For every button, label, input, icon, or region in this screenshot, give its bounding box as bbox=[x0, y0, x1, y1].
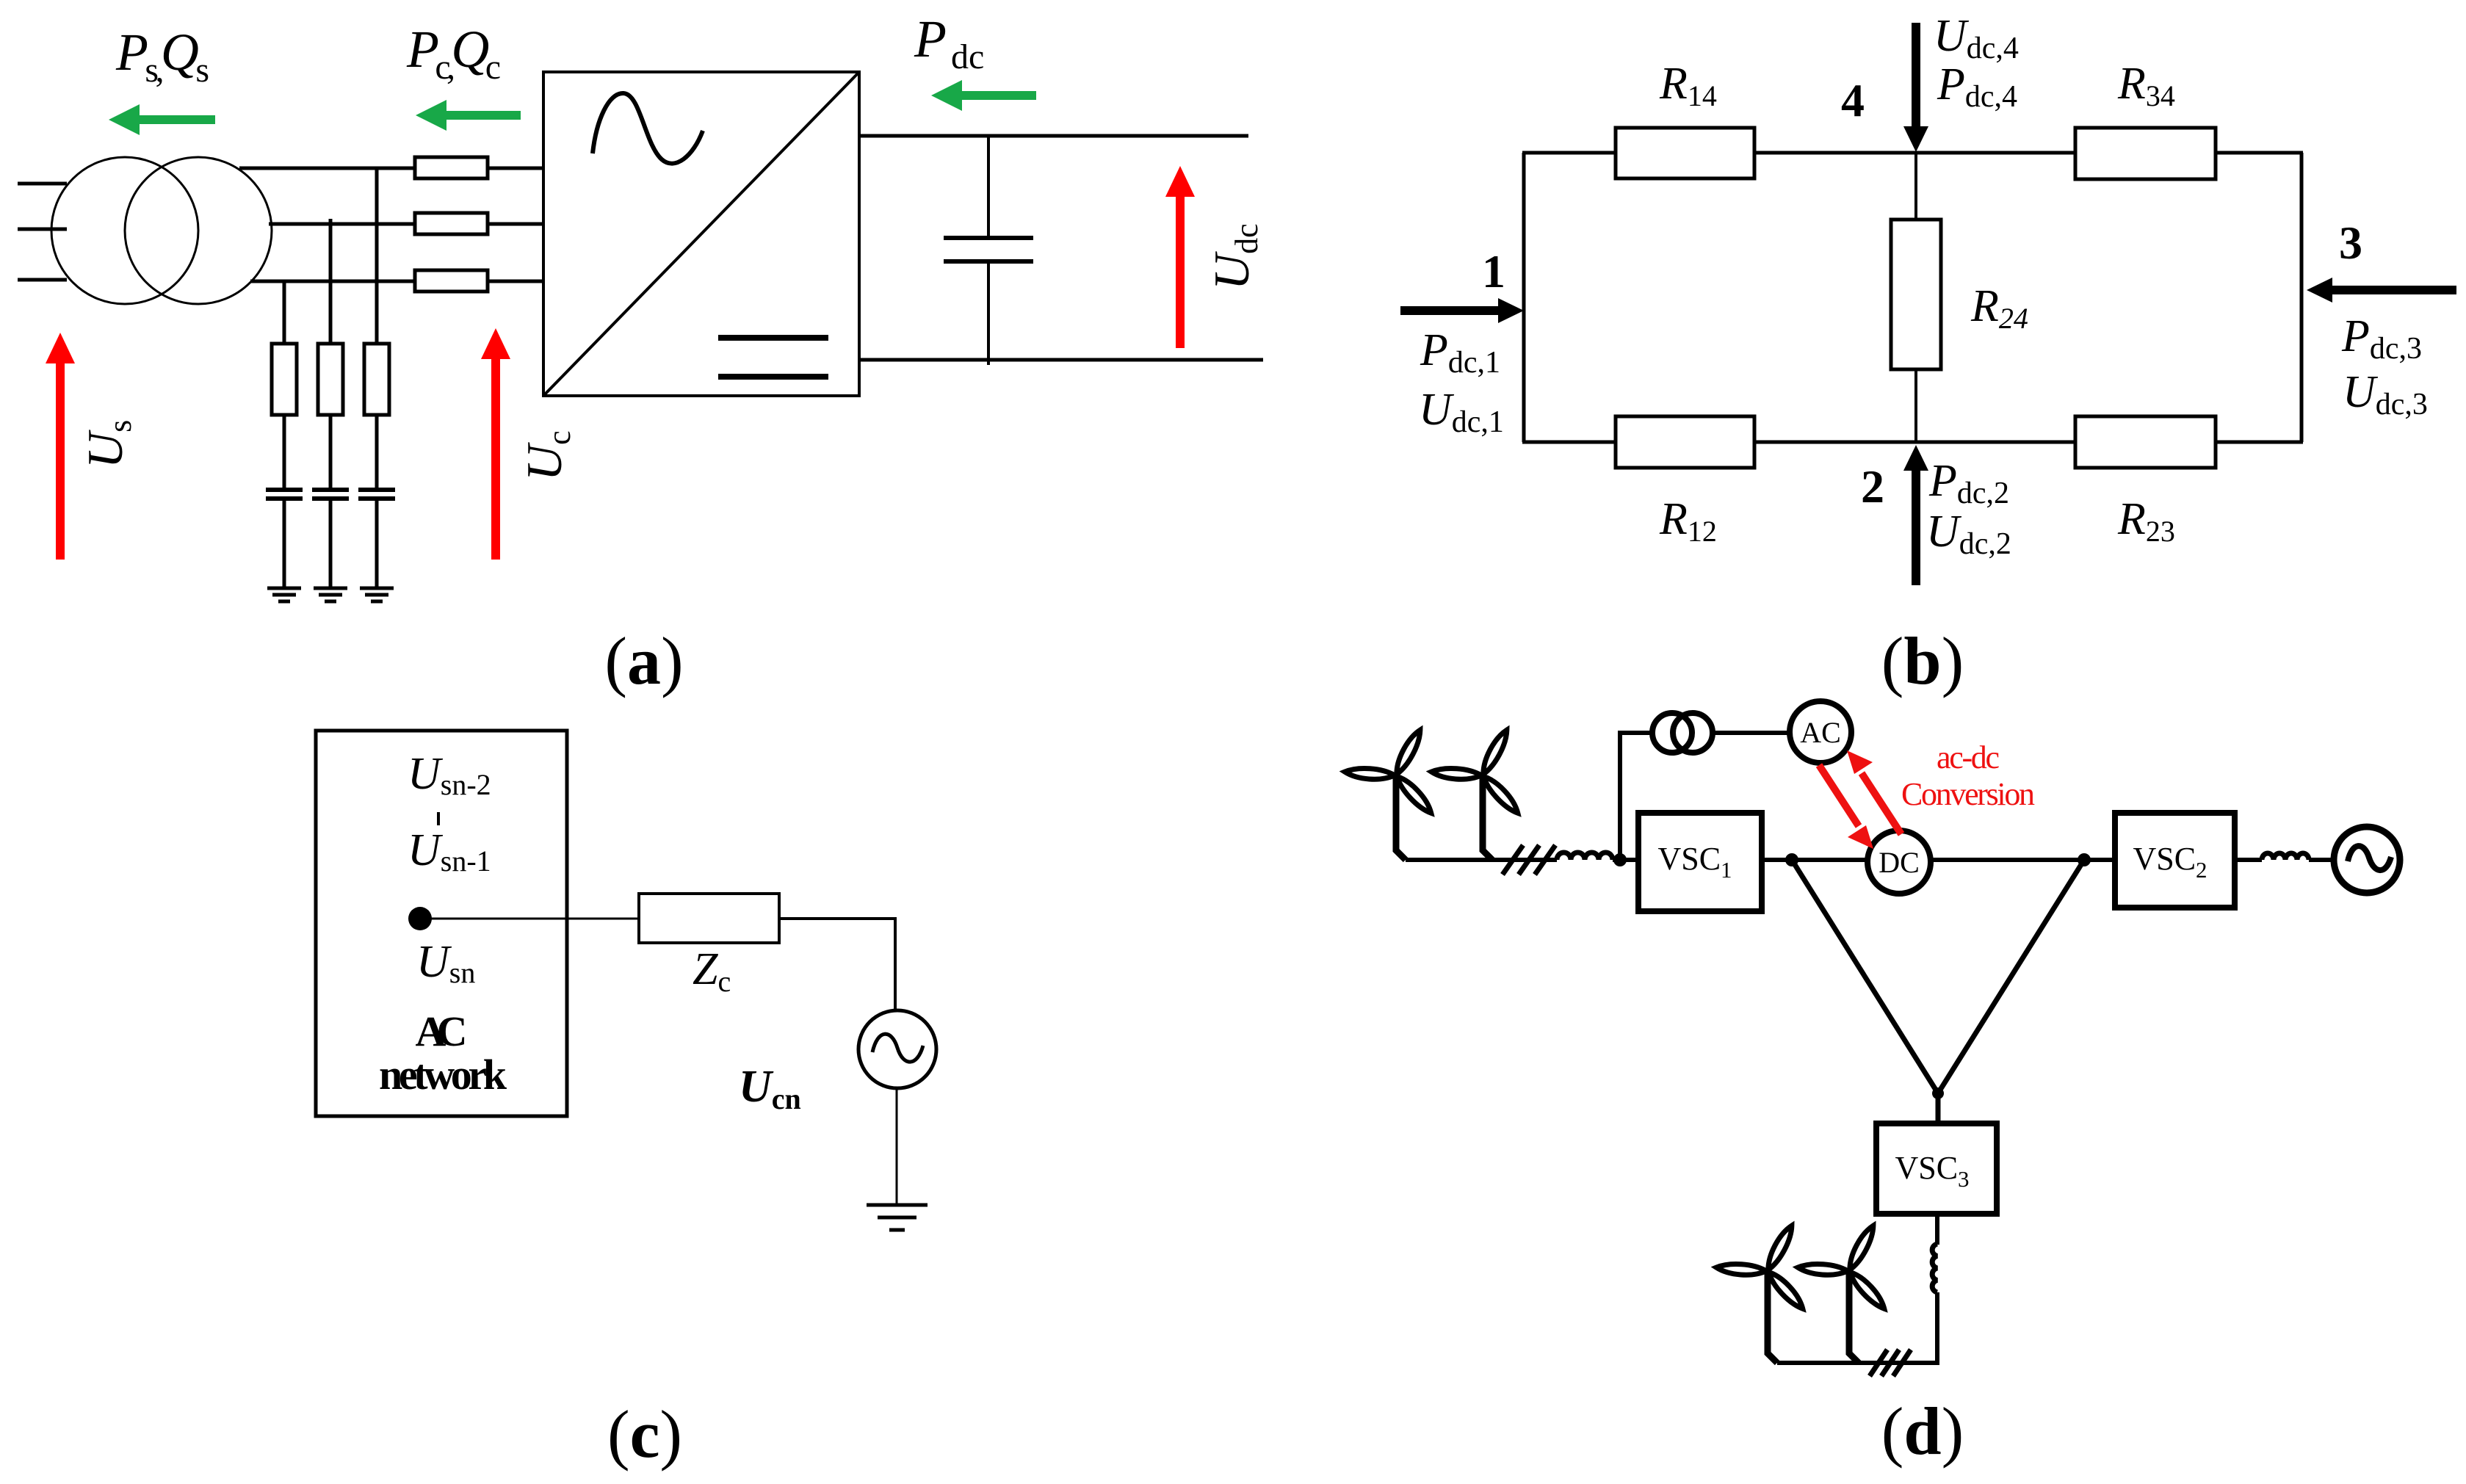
wire dot to VSC2 bbox=[2084, 858, 2115, 862]
ground symbol bbox=[867, 1205, 928, 1230]
wire phase C bbox=[250, 280, 415, 283]
wire filter 1 to cap bbox=[283, 415, 286, 488]
wire shunt branch 2 vertical bbox=[329, 219, 333, 344]
wire R24 to node2 bbox=[1914, 369, 1917, 442]
AC source sine bbox=[872, 1034, 923, 1062]
wire source to ground bbox=[896, 1088, 898, 1204]
wire phase stub 3 bbox=[18, 278, 67, 282]
wind turbine W2 bbox=[1431, 728, 1522, 860]
wire shunt branch 1 vertical bbox=[283, 281, 286, 344]
junction dot right bbox=[2078, 853, 2091, 866]
wire wind farm 1 bus bbox=[1406, 858, 1557, 862]
wire filter 3 to cap bbox=[375, 415, 379, 488]
ground symbol 2 bbox=[314, 588, 347, 601]
wire node4 to R24 bbox=[1914, 153, 1917, 220]
label tick mark bbox=[437, 812, 440, 825]
capacitor filter 1 bbox=[266, 490, 303, 499]
svg-text:AC: AC bbox=[416, 1007, 468, 1055]
svg-text:(c): (c) bbox=[607, 1397, 682, 1472]
slash marks wind farm 1 bbox=[1503, 845, 1555, 875]
converter DC symbol bbox=[718, 338, 828, 377]
svg-text:ac-dc: ac-dc bbox=[1937, 739, 2000, 775]
svg-text:4: 4 bbox=[1841, 74, 1865, 126]
wire transformer to AC node bbox=[1713, 731, 1790, 735]
DC node circle bbox=[1867, 830, 1931, 894]
resistor filter 2 bbox=[318, 344, 343, 415]
wire top left segment bbox=[1522, 151, 1616, 155]
converter VSC box bbox=[543, 72, 859, 396]
resistor Zc bbox=[639, 894, 779, 943]
resistor filter 3 bbox=[364, 344, 389, 415]
svg-text:network: network bbox=[379, 1051, 507, 1098]
wire phase B to VSC bbox=[488, 222, 543, 226]
svg-text:(d): (d) bbox=[1881, 1394, 1964, 1469]
arrow red Us bbox=[46, 333, 75, 560]
inductor wind farm 2 vertical bbox=[1932, 1244, 1937, 1292]
wire shunt branch 3 vertical bbox=[375, 168, 379, 344]
junction dot wind farm bbox=[1613, 853, 1627, 866]
wire phase stub 1 bbox=[18, 182, 67, 186]
resistor series phase A bbox=[415, 157, 488, 178]
wire inductor to bus 2 bbox=[1935, 1292, 1939, 1365]
wire inductor to junction bbox=[1613, 858, 1638, 862]
converter diagonal bbox=[543, 72, 859, 396]
VSC2 box bbox=[2115, 813, 2235, 908]
resistor filter 1 bbox=[272, 344, 297, 415]
arrow node1 injection bbox=[1400, 298, 1524, 323]
capacitor filter 3 bbox=[358, 490, 395, 499]
svg-text:(b): (b) bbox=[1881, 623, 1964, 698]
AC source grid sine bbox=[2348, 846, 2391, 870]
transformer T1 secondary winding bbox=[125, 157, 272, 304]
junction dot triangle vertex bbox=[1932, 1087, 1944, 1099]
arrow red dc-to-ac bbox=[1847, 750, 1901, 834]
wire VSC1 to dot bbox=[1762, 858, 1796, 862]
arrow node4 injection bbox=[1903, 23, 1928, 152]
wire riser to transformer bbox=[1620, 733, 1652, 860]
transformer d circle 2 bbox=[1673, 713, 1713, 753]
svg-text:2: 2 bbox=[1861, 460, 1884, 513]
wire corner down to source bbox=[894, 919, 897, 1011]
wire phase C to VSC bbox=[488, 280, 543, 283]
resistor R34 bbox=[2075, 128, 2216, 179]
AC source circle bbox=[858, 1010, 936, 1088]
svg-text:(a): (a) bbox=[604, 623, 683, 698]
wire vertex to VSC3 bbox=[1936, 1093, 1941, 1123]
wire phase A to VSC bbox=[488, 167, 543, 170]
converter AC sine symbol bbox=[593, 93, 703, 164]
resistor series phase B bbox=[415, 213, 488, 234]
wire DC rail top bbox=[859, 134, 1248, 138]
svg-text:AC: AC bbox=[1800, 716, 1841, 749]
wire cap 2 to ground bbox=[329, 501, 333, 587]
inductor grid side bbox=[2262, 853, 2309, 860]
ground symbol 1 bbox=[267, 588, 301, 601]
svg-text:3: 3 bbox=[2339, 217, 2362, 269]
ground symbol 3 bbox=[360, 588, 394, 601]
capacitor filter 2 bbox=[312, 490, 349, 499]
wire right vertical node3 bbox=[2300, 153, 2304, 442]
wind turbine W3 bbox=[1716, 1223, 1807, 1363]
wire VSC2 to inductor bbox=[2235, 858, 2262, 862]
wire phase stub 2 bbox=[18, 228, 67, 231]
AC node circle bbox=[1790, 701, 1851, 763]
AC source grid circle bbox=[2334, 827, 2400, 893]
arrow red Udc bbox=[1165, 166, 1195, 348]
arrow green Pdc bbox=[931, 80, 1036, 111]
inductor wind farm 1 bbox=[1557, 853, 1613, 860]
resistor R14 bbox=[1616, 128, 1754, 178]
wind turbine W4 bbox=[1798, 1223, 1889, 1363]
svg-text:1: 1 bbox=[1482, 245, 1505, 297]
wire capacitor dc bottom bbox=[987, 261, 990, 365]
wire phase B bbox=[269, 222, 415, 226]
wire DC rail bottom bbox=[859, 358, 1263, 362]
wire top middle segment bbox=[1754, 151, 2075, 155]
wire bottom right segment bbox=[2216, 441, 2303, 444]
capacitor dc-link bbox=[944, 238, 1033, 261]
wire node to Zc bbox=[420, 918, 639, 920]
arrow node3 injection bbox=[2307, 278, 2456, 303]
arrow node2 injection bbox=[1903, 445, 1928, 585]
VSC1 box bbox=[1638, 813, 1762, 911]
wire dot to DC node bbox=[1792, 858, 1867, 862]
wire filter 2 to cap bbox=[329, 415, 333, 488]
wire VSC3 down bbox=[1935, 1214, 1939, 1245]
VSC3 box bbox=[1876, 1123, 1997, 1214]
wire cap 3 to ground bbox=[375, 501, 379, 587]
wind turbine W1 bbox=[1345, 728, 1436, 860]
transformer d circle 1 bbox=[1652, 713, 1692, 753]
wire capacitor dc top bbox=[987, 136, 990, 238]
node Usn dot bbox=[408, 907, 432, 930]
arrow red ac-to-dc bbox=[1819, 765, 1873, 849]
wire triangle left diagonal bbox=[1792, 860, 1938, 1093]
wire bottom left segment bbox=[1522, 441, 1616, 444]
svg-text:Conversion: Conversion bbox=[1901, 776, 2035, 812]
wire Zc to corner bbox=[779, 917, 897, 920]
svg-text:Pc,Qc: Pc,Qc bbox=[406, 20, 501, 87]
resistor R23 bbox=[2075, 416, 2216, 468]
resistor R12 bbox=[1616, 416, 1754, 468]
resistor series phase C bbox=[415, 270, 488, 292]
wire triangle right diagonal bbox=[1938, 860, 2084, 1093]
wire cap 1 to ground bbox=[283, 501, 286, 587]
wire left vertical node1 bbox=[1522, 153, 1526, 442]
transformer T1 primary winding bbox=[51, 157, 198, 304]
svg-text:Ps,Qs: Ps,Qs bbox=[115, 23, 209, 90]
svg-text:DC: DC bbox=[1879, 846, 1920, 879]
arrow green Pc Qc bbox=[416, 100, 521, 131]
wire DC node to right dot bbox=[1931, 858, 2084, 862]
arrow green Ps Qs bbox=[109, 104, 215, 135]
wire wind farm 2 bus bbox=[1777, 1361, 1939, 1365]
junction dot left bbox=[1785, 853, 1798, 866]
AC network box bbox=[316, 731, 567, 1116]
wire top right segment bbox=[2216, 151, 2303, 155]
resistor R24 bbox=[1891, 220, 1941, 369]
wire bottom middle segment bbox=[1754, 441, 2075, 444]
wire phase A bbox=[239, 167, 415, 170]
wire inductor to AC source bbox=[2309, 858, 2334, 862]
slash marks wind farm 2 bbox=[1870, 1350, 1911, 1376]
arrow red Uc bbox=[481, 328, 510, 560]
